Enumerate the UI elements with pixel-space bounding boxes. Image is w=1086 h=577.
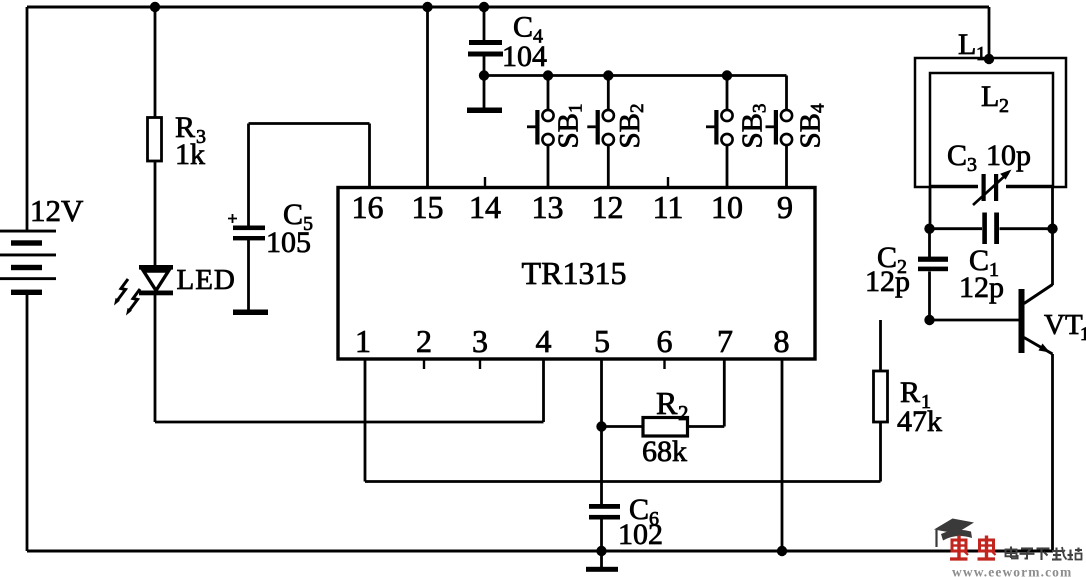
- svg-text:13: 13: [532, 189, 564, 225]
- svg-text:102: 102: [618, 518, 663, 551]
- svg-text:11: 11: [653, 189, 684, 225]
- svg-text:12V: 12V: [30, 193, 84, 228]
- svg-text:47k: 47k: [897, 405, 942, 438]
- svg-text:C: C: [947, 139, 967, 172]
- svg-text:C: C: [513, 11, 533, 44]
- svg-text:105: 105: [266, 226, 311, 259]
- svg-text:4: 4: [536, 323, 552, 359]
- svg-text:VT: VT: [1044, 309, 1083, 341]
- svg-text:SB4: SB4: [795, 103, 829, 148]
- svg-text:1: 1: [355, 323, 371, 359]
- svg-text:12: 12: [592, 189, 624, 225]
- svg-text:104: 104: [502, 40, 547, 73]
- svg-text:2: 2: [678, 401, 689, 425]
- svg-text:SB2: SB2: [614, 104, 648, 149]
- svg-text:2: 2: [999, 95, 1009, 117]
- svg-text:15: 15: [412, 189, 444, 225]
- svg-text:7: 7: [717, 323, 733, 359]
- svg-text:8: 8: [774, 323, 790, 359]
- svg-text:5: 5: [594, 323, 610, 359]
- svg-text:SB3: SB3: [737, 104, 771, 149]
- svg-text:SB1: SB1: [553, 104, 587, 149]
- svg-text:14: 14: [469, 189, 501, 225]
- svg-text:2: 2: [416, 323, 432, 359]
- svg-text:1: 1: [1080, 324, 1086, 345]
- svg-text:R: R: [656, 385, 678, 421]
- svg-text:1k: 1k: [175, 138, 205, 171]
- svg-text:10: 10: [711, 189, 743, 225]
- svg-text:3: 3: [967, 154, 977, 176]
- svg-text:1: 1: [976, 43, 986, 65]
- svg-text:10p: 10p: [986, 139, 1031, 172]
- svg-text:16: 16: [352, 189, 384, 225]
- svg-text:6: 6: [657, 323, 673, 359]
- svg-text:68k: 68k: [642, 435, 687, 468]
- svg-text:3: 3: [472, 323, 488, 359]
- svg-text:12p: 12p: [959, 271, 1004, 304]
- svg-text:12p: 12p: [865, 265, 910, 298]
- svg-text:L: L: [981, 80, 999, 113]
- svg-text:TR1315: TR1315: [522, 255, 627, 291]
- svg-text:LED: LED: [177, 264, 236, 296]
- svg-text:L: L: [958, 28, 976, 61]
- svg-text:www.eeworm.com: www.eeworm.com: [952, 565, 1072, 577]
- svg-text:9: 9: [777, 189, 793, 225]
